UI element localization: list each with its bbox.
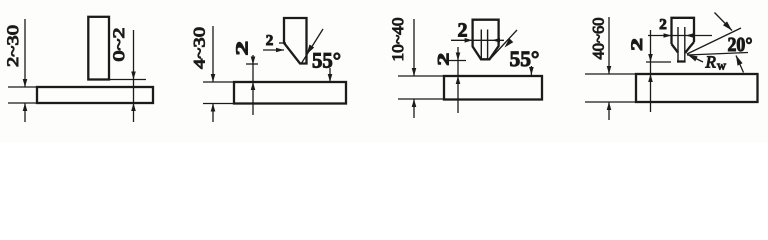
svg-text:40~60: 40~60 [591, 18, 608, 60]
panel 3 dimension gap 2 down arrowhead [456, 53, 461, 61]
svg-text:10~40: 10~40 [390, 18, 407, 62]
svg-text:w: w [717, 59, 726, 73]
panel 4 extension tick root gap [646, 61, 671, 63]
panel 4 angle lower arrowhead [736, 55, 743, 65]
panel 2 angle leader line [301, 29, 323, 64]
panel 2 angle leader arrowhead [307, 45, 315, 55]
panel 3 angle down arrow line [530, 66, 532, 75]
panel 4 upright plate with J-groove [672, 18, 695, 44]
panel 3 dimension root 2 right-pointing arrowhead [465, 38, 473, 43]
panel 4 angle lower arrow line [736, 56, 744, 73]
panel 4 dimension gap 2 line [650, 30, 652, 112]
svg-text:55°: 55° [312, 48, 341, 73]
panel 2 bevel shoulder extension tick [279, 42, 286, 44]
panel 4 root face left edge [677, 27, 679, 62]
panel 3 angle leader line [491, 30, 517, 58]
panel 3 base plate [444, 76, 542, 100]
panel 1 dimension 2~30 upper arrowhead [23, 79, 28, 87]
panel 3 dimension root 2 left-pointing arrowhead [492, 38, 500, 43]
panel 1 dimension 2~30 lower arrowhead [23, 103, 28, 111]
svg-text:2: 2 [436, 53, 453, 66]
panel 4 angle upper arrow line [715, 13, 733, 31]
panel 2 extension line base top left [203, 81, 234, 83]
panel 1 dimension 0~2 down arrowhead [131, 72, 136, 80]
panel 4 dimension 40~60 lower line [608, 102, 610, 120]
panel 1 extension line base top left [8, 86, 37, 88]
panel 3 dimension 10~40 lower arrowhead [412, 99, 417, 107]
panel 4 dimension 40~60 upper arrowhead [607, 66, 612, 74]
panel 4 dimension root 2 right-pointing arrowhead [664, 33, 672, 38]
panel 4 radius leader arrowhead [688, 55, 698, 62]
panel 4 left groove face [672, 44, 679, 53]
panel 4 dimension gap 2 up arrowhead [648, 74, 653, 82]
panel 4 extension line base top left [585, 73, 636, 75]
panel 2 extension line base bottom left [203, 103, 234, 105]
panel 4 dimension gap 2 down arrowhead [648, 54, 653, 62]
panel 4 angle lower line [687, 53, 748, 56]
panel 2 dimension 4~30 lower line [212, 104, 214, 123]
svg-text:4~30: 4~30 [192, 27, 209, 69]
panel 4 root bottom [677, 60, 686, 62]
panel 1 upright plate [88, 17, 109, 80]
panel 3 upright plate with double bevel [473, 20, 499, 60]
panel 2 base plate [234, 82, 346, 104]
panel 2 dimension gap 2 up arrowhead [251, 82, 256, 90]
svg-text:2: 2 [659, 17, 667, 33]
panel 3 dimension gap 2 line [457, 47, 459, 113]
panel 2 dimension gap 2 down arrowhead [251, 57, 256, 65]
panel 3 dimension 10~40 upper line [413, 19, 415, 76]
panel 3 dimension 10~40 upper arrowhead [412, 68, 417, 76]
panel 3 root face left edge [480, 30, 482, 60]
svg-text:2: 2 [458, 20, 468, 42]
panel 1 dimension 2~30 upper line [24, 19, 26, 87]
panel 4 angle upper line [687, 28, 741, 54]
panel 4 dimension root 2 line [648, 35, 712, 37]
svg-text:2~30: 2~30 [5, 25, 22, 67]
panel 3 root face right edge [487, 30, 489, 60]
panel 2 extension tick root gap [246, 63, 258, 65]
svg-text:2: 2 [233, 41, 252, 55]
svg-text:0~2: 0~2 [111, 28, 128, 62]
panel 4 dimension root 2 left-pointing arrowhead [686, 33, 694, 38]
svg-text:R: R [705, 53, 717, 72]
panel 2 dimension root face 2 line [263, 49, 284, 51]
panel 1 dimension 0~2 line [133, 30, 135, 122]
panel 1 extension line base bottom left [8, 102, 37, 104]
panel 4 radius leader line [688, 55, 704, 63]
panel 1 dimension 2~30 lower line [24, 103, 26, 122]
panel 3 dimension root 2 line [451, 39, 504, 41]
panel 3 extension tick root gap [449, 60, 466, 62]
svg-text:55°: 55° [510, 46, 540, 71]
panel 2 dimension 4~30 lower arrowhead [211, 104, 216, 112]
panel 4 dimension 40~60 lower arrowhead [607, 102, 612, 110]
panel 4 angle upper arrowhead [723, 21, 732, 30]
svg-text:2: 2 [629, 38, 646, 51]
panel 2 dimension gap 2 line [252, 55, 254, 115]
panel 3 dimension gap 2 up arrowhead [456, 76, 461, 84]
panel 2 angle down arrow line [329, 68, 331, 82]
panel 3 extension line base bottom left [398, 98, 444, 100]
panel 3 dimension 10~40 lower line [413, 99, 415, 118]
panel 4 extension line base bottom left [585, 101, 636, 103]
panel 1 dimension 0~2 up arrowhead [131, 103, 136, 111]
panel 1 base plate [37, 87, 153, 103]
panel 3 angle leader arrowhead [505, 38, 514, 47]
panel 2 dimension 4~30 upper arrowhead [211, 74, 216, 82]
panel 2 angle down arrowhead [328, 74, 333, 82]
panel 4 base plate [636, 74, 758, 102]
panel 4 dimension 40~60 upper line [608, 17, 610, 74]
panel 2 dimension 4~30 upper line [212, 26, 214, 82]
panel 1 extension line plate bottom [110, 79, 146, 81]
panel 2 dimension root face 2 arrowhead [276, 48, 284, 53]
panel 4 root face right edge [684, 27, 686, 62]
panel 3 angle down arrowhead [529, 67, 534, 75]
svg-text:2: 2 [266, 33, 274, 49]
panel 2 upright plate with single bevel [284, 18, 307, 64]
panel 3 extension line base top left [398, 75, 444, 77]
panel 4 right groove face with radius [685, 42, 694, 53]
